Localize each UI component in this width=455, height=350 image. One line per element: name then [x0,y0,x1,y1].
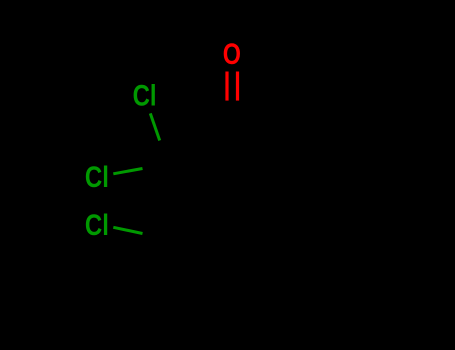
svg-text:Cl: Cl [85,207,109,241]
atom O (carbonyl oxygen label) [223,37,241,70]
svg-text:O: O [223,37,241,70]
atom Cl3 (bottom chlorine label) [85,207,109,241]
double bond C1=O (left line) [225,72,228,101]
svg-text:Cl: Cl [85,159,109,193]
bond Cl1-C2 [150,113,159,140]
atom Cl2 (middle chlorine label) [85,159,109,193]
bond Cl3-C3 [113,227,142,233]
svg-text:Cl: Cl [133,78,157,112]
atom Cl1 (top chlorine label) [133,78,157,112]
bond Cl2-C2 [113,169,142,174]
double bond C1=O (right line) [236,72,239,101]
